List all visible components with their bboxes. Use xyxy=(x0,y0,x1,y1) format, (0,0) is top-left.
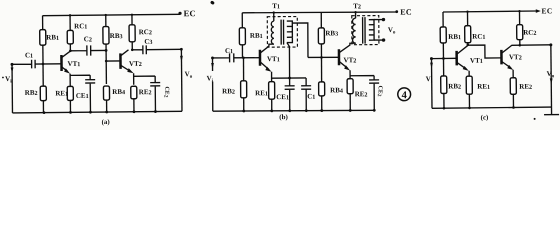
transistor VT2 (a) xyxy=(105,50,142,85)
output Vo (b) xyxy=(388,26,396,36)
resistor RB2 (c) xyxy=(440,58,461,108)
transistor VT1 (c) xyxy=(431,45,483,76)
mark circled 4 xyxy=(398,88,411,101)
transistor VT1 (b) xyxy=(260,44,280,82)
resistor RC2 (c) xyxy=(516,11,536,47)
svg-text:T2: T2 xyxy=(353,2,361,10)
resistor RB1 (c) xyxy=(440,12,461,59)
svg-text:VT1: VT1 xyxy=(67,60,80,68)
svg-text:T1: T1 xyxy=(272,2,280,10)
svg-text:RE2: RE2 xyxy=(519,83,532,91)
resistor RE1 (c) xyxy=(466,76,490,108)
transformer T2 (b) xyxy=(352,2,386,45)
svg-text:CE2: CE2 xyxy=(162,86,169,97)
ground symbol (c) xyxy=(533,107,559,120)
svg-text:RB1: RB1 xyxy=(250,32,263,40)
resistor RB3 (b) xyxy=(318,12,338,57)
node EC terminal (c) xyxy=(536,6,553,15)
wire emitter bypass node (b) xyxy=(272,77,307,80)
svg-text:VT1: VT1 xyxy=(470,57,483,65)
wire bottom ground rail (a) xyxy=(12,110,182,114)
resistor RB1 (b) xyxy=(239,13,263,58)
svg-text:RB3: RB3 xyxy=(325,29,338,37)
resistor RC1 (a) xyxy=(67,15,88,51)
svg-text:C1: C1 xyxy=(307,92,315,100)
svg-text:(c): (c) xyxy=(481,114,490,122)
output Vo (a) xyxy=(180,48,193,112)
svg-text:CE1: CE1 xyxy=(76,92,89,100)
wire top supply rail (a) xyxy=(43,13,181,17)
resistor RC2 (a) xyxy=(129,15,152,50)
resistor RE2 (b) xyxy=(347,79,367,111)
capacitor C1 bypass (b) xyxy=(301,78,315,111)
node collector junction VT1 (a) xyxy=(69,49,107,52)
svg-text:C1: C1 xyxy=(25,51,33,59)
wire T1 secondary top lead to VT2 base xyxy=(292,23,308,58)
node EC terminal (a) xyxy=(178,0,215,18)
svg-text:C3: C3 xyxy=(144,38,152,46)
resistor RB1 (a) xyxy=(40,15,60,63)
svg-text:VT2: VT2 xyxy=(129,60,142,68)
transformer T2 dashed box xyxy=(352,16,379,45)
capacitor CE1 (a) xyxy=(70,75,95,112)
svg-text:C2: C2 xyxy=(84,35,92,43)
svg-text:RC1: RC1 xyxy=(472,33,485,41)
transformer T2 core xyxy=(363,17,366,44)
transformer T1 secondary winding xyxy=(287,21,293,43)
transformer T1 core xyxy=(281,20,284,45)
transformer T1 primary winding xyxy=(271,13,274,45)
svg-text:RE2: RE2 xyxy=(355,90,368,98)
svg-text:RB4: RB4 xyxy=(330,86,343,94)
svg-text:Vo: Vo xyxy=(388,26,396,36)
wire T2 secondary output leads xyxy=(374,20,383,41)
svg-text:RC2: RC2 xyxy=(139,28,152,36)
svg-text:RB1: RB1 xyxy=(46,33,59,41)
svg-text:RE1: RE1 xyxy=(477,83,490,91)
node EC terminal (b) xyxy=(395,8,412,17)
transformer T2 secondary winding xyxy=(369,20,374,41)
svg-text:RE1: RE1 xyxy=(255,89,268,97)
svg-text:RE1: RE1 xyxy=(55,89,68,97)
transformer T1 dashed box xyxy=(267,17,297,48)
svg-text:RB1: RB1 xyxy=(448,33,461,41)
wire coupling VT1 collector to VT2 base (c) xyxy=(468,45,502,58)
wire top supply rail (c) xyxy=(443,10,537,13)
svg-text:VT2: VT2 xyxy=(343,56,356,64)
caption (b) xyxy=(279,113,288,121)
svg-text:RE2: RE2 xyxy=(139,88,152,96)
transformer T1 (b) xyxy=(267,2,308,78)
svg-text:CE1: CE1 xyxy=(276,93,289,101)
resistor RE1 (a) xyxy=(55,86,73,112)
resistor RC1 (c) xyxy=(464,12,485,47)
resistor RB4 (b) xyxy=(318,57,343,110)
svg-text:EC: EC xyxy=(400,8,412,17)
svg-text:VT2: VT2 xyxy=(509,53,522,61)
wire base VT2 (b) xyxy=(308,56,339,59)
resistor RE2 (a) xyxy=(131,86,152,112)
svg-text:RC2: RC2 xyxy=(523,29,536,37)
input Vi (a) xyxy=(2,63,14,113)
wire T1 secondary bottom lead xyxy=(287,43,290,79)
capacitor C1 (b) xyxy=(225,47,260,63)
input Vi (b) xyxy=(206,56,229,111)
svg-text:RB3: RB3 xyxy=(110,32,123,40)
svg-text:Vi: Vi xyxy=(207,74,214,84)
resistor RB3 (a) xyxy=(103,15,123,61)
svg-text:EC: EC xyxy=(183,8,196,18)
wire bottom ground rail (c) xyxy=(432,106,552,110)
output Vo (c) xyxy=(520,43,555,107)
svg-text:(a): (a) xyxy=(102,118,111,126)
transistor VT1 (a) xyxy=(61,51,80,86)
svg-text:RB2: RB2 xyxy=(25,89,38,97)
transistor VT2 (c) xyxy=(501,45,522,78)
caption (c) xyxy=(481,114,490,122)
svg-text:RC1: RC1 xyxy=(74,22,87,30)
svg-text:VT1: VT1 xyxy=(267,55,280,63)
svg-text:Vi: Vi xyxy=(5,75,12,85)
svg-text:4: 4 xyxy=(402,90,408,101)
svg-text:RB4: RB4 xyxy=(112,88,125,96)
capacitor C3 (a) xyxy=(131,37,182,54)
svg-text:C1: C1 xyxy=(225,47,233,55)
capacitor CE2 (a) xyxy=(134,76,170,112)
capacitor CE1 (b) xyxy=(276,78,295,111)
svg-text:RB2: RB2 xyxy=(448,82,461,90)
resistor RB2 (a) xyxy=(25,64,47,113)
svg-text:(b): (b) xyxy=(279,113,288,121)
capacitor C1 (a) xyxy=(12,51,62,69)
svg-text:CE2: CE2 xyxy=(376,86,383,97)
caption (a) xyxy=(102,118,111,126)
svg-text:RB2: RB2 xyxy=(222,87,235,95)
transformer T2 primary winding xyxy=(352,12,355,43)
capacitor C2 (a) xyxy=(70,35,106,56)
svg-text:Vo: Vo xyxy=(185,70,193,80)
transistor VT2 (b) xyxy=(339,43,357,79)
wire bottom ground rail (b) xyxy=(213,109,376,113)
resistor RE1 (b) xyxy=(255,82,275,111)
resistor RB2 (b) xyxy=(222,58,247,111)
capacitor CE2 (b) xyxy=(350,76,383,111)
resistor RE2 (c) xyxy=(510,78,532,108)
input Vi (c) xyxy=(425,57,433,108)
svg-text:EC: EC xyxy=(541,6,552,15)
resistor RB4 (a) xyxy=(103,61,125,112)
wire top supply rail (b) xyxy=(242,11,397,14)
